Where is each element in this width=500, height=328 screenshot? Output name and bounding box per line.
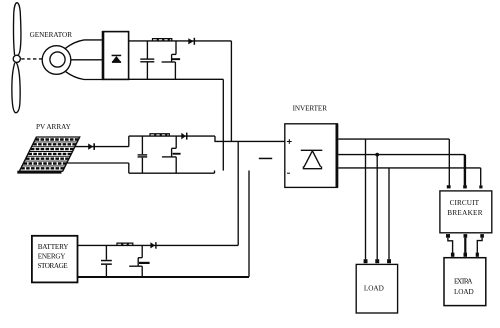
svg-text:ENERGY: ENERGY (38, 253, 67, 261)
svg-text:CIRCUIT: CIRCUIT (450, 199, 480, 207)
svg-text:STORAGE: STORAGE (38, 262, 69, 270)
svg-text:EXTRA: EXTRA (454, 278, 473, 286)
svg-text:INVERTER: INVERTER (293, 104, 328, 112)
svg-text:LOAD: LOAD (454, 288, 474, 296)
svg-text:LOAD: LOAD (364, 285, 384, 293)
svg-text:BATTERY: BATTERY (38, 243, 70, 251)
svg-text:PV ARRAY: PV ARRAY (36, 123, 72, 131)
svg-text:BREAKER: BREAKER (447, 209, 482, 217)
svg-text:GENERATOR: GENERATOR (30, 31, 73, 39)
